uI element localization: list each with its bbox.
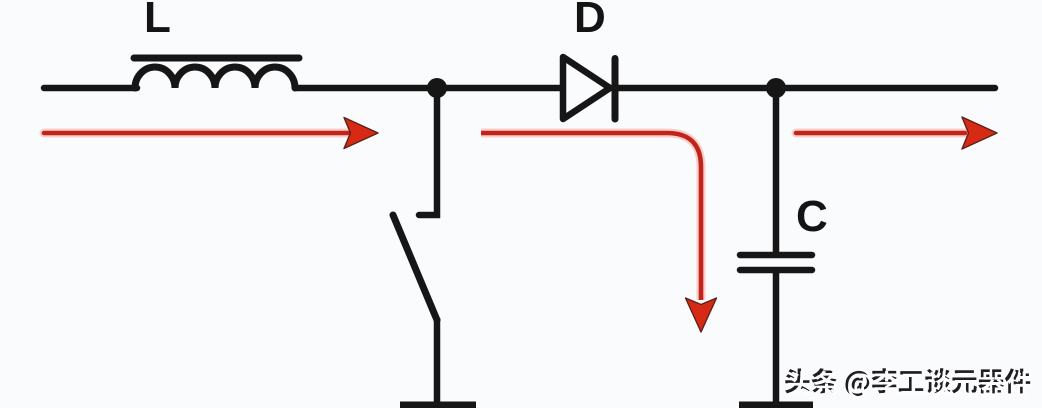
current arrow 1 (input) shaft (44, 129, 348, 138)
inductor L winding arcs (135, 67, 295, 88)
wire: switch upper lead with hook (419, 88, 437, 215)
svg-text:C: C (796, 192, 828, 241)
svg-text:L: L (144, 0, 171, 42)
inductor L core bar (134, 55, 299, 62)
current arrow 1 head (344, 118, 378, 149)
node B junction dot (766, 78, 786, 98)
diode D triangle (563, 57, 610, 119)
current arrow 2 (through diode, curved down) shaft (481, 133, 701, 300)
svg-text:D: D (574, 0, 606, 42)
wire: rail from inductor through node A to diode anode (295, 85, 563, 92)
current arrow 3 (output) shaft (796, 129, 965, 138)
node A junction dot (427, 78, 447, 98)
ground (capacitor) (739, 402, 813, 408)
current arrow 2 head (686, 298, 717, 332)
diode D cathode bar (612, 59, 619, 120)
capacitor C bottom plate (740, 267, 812, 274)
wire: main horizontal rail left segment (44, 85, 137, 92)
current arrow 3 head (962, 117, 997, 149)
ground (switch) (400, 402, 476, 408)
wire: capacitor lower lead (773, 270, 780, 403)
wire: capacitor upper lead (773, 88, 780, 252)
switch S blade (open) (393, 215, 437, 320)
capacitor C top plate (740, 252, 812, 259)
wire: switch lower lead (434, 318, 441, 403)
wire: rail from diode cathode through node B to output (615, 85, 995, 92)
